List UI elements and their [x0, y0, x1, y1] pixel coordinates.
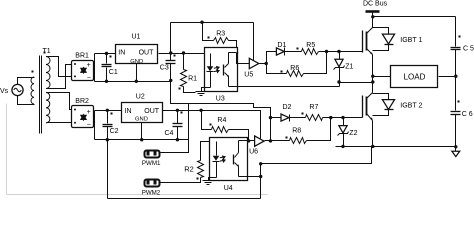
buffer U6 — [249, 136, 264, 156]
capacitor C4 — [165, 111, 183, 142]
wire IGBT1 collector to DC bus — [372, 17, 374, 28]
svg-text:D2: D2 — [283, 104, 292, 111]
T1 primary polarity dot — [32, 71, 34, 73]
svg-text:C4: C4 — [165, 130, 174, 137]
svg-text:PWM2: PWM2 — [142, 190, 161, 197]
wire U2 GND to ground rail — [141, 123, 143, 140]
optocoupler U3 — [205, 48, 238, 103]
svg-text:C 6: C 6 — [462, 111, 473, 118]
wire secondary1 top to BR1 lower input (crossing) — [47, 57, 72, 77]
svg-text:Z2: Z2 — [349, 130, 357, 137]
wire channel2 emitter return rail — [336, 146, 456, 148]
T1 secondary 2 winding — [46, 93, 50, 123]
svg-text:−: − — [87, 75, 91, 82]
U4 phototransistor — [233, 155, 235, 165]
svg-text:R2: R2 — [184, 164, 194, 173]
optocoupler U4 — [210, 138, 248, 193]
wire channel1 emitter return — [339, 83, 341, 87]
svg-text:DC Bus: DC Bus — [363, 1, 388, 8]
wire secondary2 top to BR2 upper input — [47, 93, 72, 110]
svg-text:U1: U1 — [132, 34, 141, 41]
svg-text:R1: R1 — [188, 76, 197, 83]
svg-text:LOAD: LOAD — [404, 73, 426, 82]
wire secondary2 bottom to BR2 lower input — [47, 122, 72, 124]
resistor R5 — [285, 42, 327, 54]
wire C2 node down to PWM common bus — [107, 140, 109, 199]
LOAD — [373, 66, 456, 88]
wire top rail (U1 OUT node to U5 supply) — [171, 22, 254, 24]
bridge rectifier BR1 — [72, 53, 94, 82]
ground under U4 — [203, 181, 215, 185]
resistor R4 — [202, 111, 249, 141]
wire U4 collector to U6 input — [249, 140, 255, 142]
svg-text:BR1: BR1 — [75, 53, 89, 60]
svg-text:BR2: BR2 — [75, 98, 89, 105]
U3 phototransistor — [223, 65, 225, 76]
zener Z1 — [334, 52, 354, 83]
resistor R2 — [184, 142, 216, 178]
capacitor C5 — [451, 36, 474, 53]
svg-text:IN: IN — [118, 50, 125, 57]
T1 primary winding — [31, 77, 34, 104]
svg-text:IGBT 2: IGBT 2 — [400, 103, 422, 110]
wire PWM common bus — [108, 198, 261, 200]
wire IGBT1 emitter down to IGBT2 collector — [372, 55, 374, 93]
svg-text:OUT: OUT — [139, 50, 155, 57]
wire BR2 output bracket — [94, 111, 96, 140]
IGBT 1 — [363, 28, 423, 55]
wire channel1 ground rail — [95, 81, 171, 83]
svg-text:U4: U4 — [224, 185, 233, 192]
svg-text:GND: GND — [135, 117, 148, 123]
svg-text:C2: C2 — [110, 128, 119, 135]
wire IGBT2 emitter to return rail — [372, 121, 374, 147]
svg-text:C1: C1 — [109, 69, 118, 76]
svg-text:IGBT 1: IGBT 1 — [400, 37, 422, 44]
transformer T1 — [31, 48, 51, 134]
wire DC bus rail to right — [373, 16, 456, 18]
svg-text:C3: C3 — [160, 65, 169, 72]
T1 core — [39, 56, 41, 134]
wire U4 emitter return — [239, 176, 261, 178]
svg-text:R3: R3 — [216, 31, 225, 38]
freewheel diode of IGBT2 — [373, 94, 395, 116]
capacitor C3 — [160, 23, 176, 83]
chassis ground right — [452, 151, 460, 156]
T1 secondary 1 winding — [46, 57, 50, 89]
svg-text:R4: R4 — [217, 117, 226, 124]
resistor R8 — [271, 118, 331, 144]
svg-text:R8: R8 — [292, 127, 301, 134]
diode D2 — [271, 104, 292, 121]
wire PWM common riser — [260, 164, 262, 199]
resistor R7 — [290, 104, 331, 120]
svg-text:+: + — [87, 62, 91, 69]
svg-text:−: − — [87, 122, 91, 129]
wire U3 cathode to ground — [202, 88, 211, 92]
wire U4 cathode to ground — [209, 178, 217, 181]
wire PWM1 to channel1 common rail — [161, 104, 189, 153]
wire secondary1 bottom to BR1 upper input (crossing) — [47, 65, 72, 89]
wire U6 output node — [265, 140, 271, 142]
resistor R1 — [179, 54, 198, 93]
wire BR1 plus rail to U1 IN — [95, 53, 116, 55]
svg-text:U2: U2 — [136, 94, 145, 101]
svg-text:U3: U3 — [216, 96, 225, 103]
svg-text:U6: U6 — [249, 149, 258, 156]
wire U4 collector stub — [239, 140, 249, 142]
wire BR1 output bracket — [94, 54, 96, 82]
svg-text:Z1: Z1 — [345, 63, 353, 70]
wire gate line IGBT1 — [327, 51, 363, 53]
connector PWM1 — [142, 151, 161, 168]
capacitor C2 — [103, 109, 119, 142]
svg-text:IN: IN — [125, 108, 132, 115]
svg-text:R5: R5 — [306, 42, 315, 49]
wire U2 OUT rail to U6 supply — [163, 111, 261, 139]
buffer U5 — [244, 23, 258, 79]
wire Vs bottom to primary — [18, 96, 35, 105]
wire gate line IGBT2 — [331, 117, 363, 119]
T1 secondary 1 polarity dot — [44, 52, 46, 54]
regulator U1 — [116, 34, 158, 66]
bridge rectifier BR2 — [72, 98, 94, 129]
U3 LED light arrows — [214, 67, 219, 70]
wire U5 output node — [259, 63, 267, 65]
resistor R3 — [203, 23, 237, 53]
freewheel diode of IGBT1 — [373, 28, 395, 51]
svg-text:C 5: C 5 — [463, 46, 474, 53]
faint page artifact lines — [6, 104, 8, 195]
U3 LED — [210, 54, 212, 67]
wire BR2 plus rail to U2 IN — [95, 110, 122, 112]
wire U3 collector to U5 input — [237, 53, 250, 64]
wire U3 collector stub — [229, 52, 237, 54]
regulator U2 — [122, 94, 163, 123]
zener Z2 — [338, 118, 358, 147]
wire U3 emitter return — [229, 86, 340, 88]
U4 LED light arrows — [220, 156, 225, 159]
svg-text:D1: D1 — [277, 42, 286, 49]
ground under U3 — [196, 92, 208, 96]
wire channel1 common extension rail — [171, 81, 271, 141]
DC bus — [363, 1, 388, 17]
IGBT 2 — [363, 93, 423, 121]
svg-text:R7: R7 — [309, 104, 318, 111]
wire U1 OUT rail — [159, 53, 211, 55]
diode D1 — [267, 42, 287, 63]
wire PWM2 to R2 bottom — [161, 178, 201, 183]
svg-text:OUT: OUT — [144, 108, 160, 115]
wire Vs top to primary — [18, 78, 35, 85]
wire channel2 return link — [261, 147, 372, 164]
wire right DC rail — [455, 17, 457, 47]
capacitor C6 — [451, 101, 473, 119]
U4 LED — [216, 142, 218, 156]
connector PWM2 — [142, 180, 161, 197]
wire U1 GND to ground rail — [136, 64, 138, 82]
svg-text:U5: U5 — [244, 72, 253, 79]
svg-text:R6: R6 — [290, 65, 299, 72]
resistor R6 — [267, 52, 327, 77]
capacitor C1 — [102, 52, 118, 83]
AC source Vs — [0, 84, 23, 95]
svg-text:+: + — [87, 109, 91, 116]
svg-text:Vs: Vs — [0, 88, 9, 95]
svg-text:PWM1: PWM1 — [142, 160, 161, 167]
wire channel2 ground rail — [95, 139, 189, 141]
